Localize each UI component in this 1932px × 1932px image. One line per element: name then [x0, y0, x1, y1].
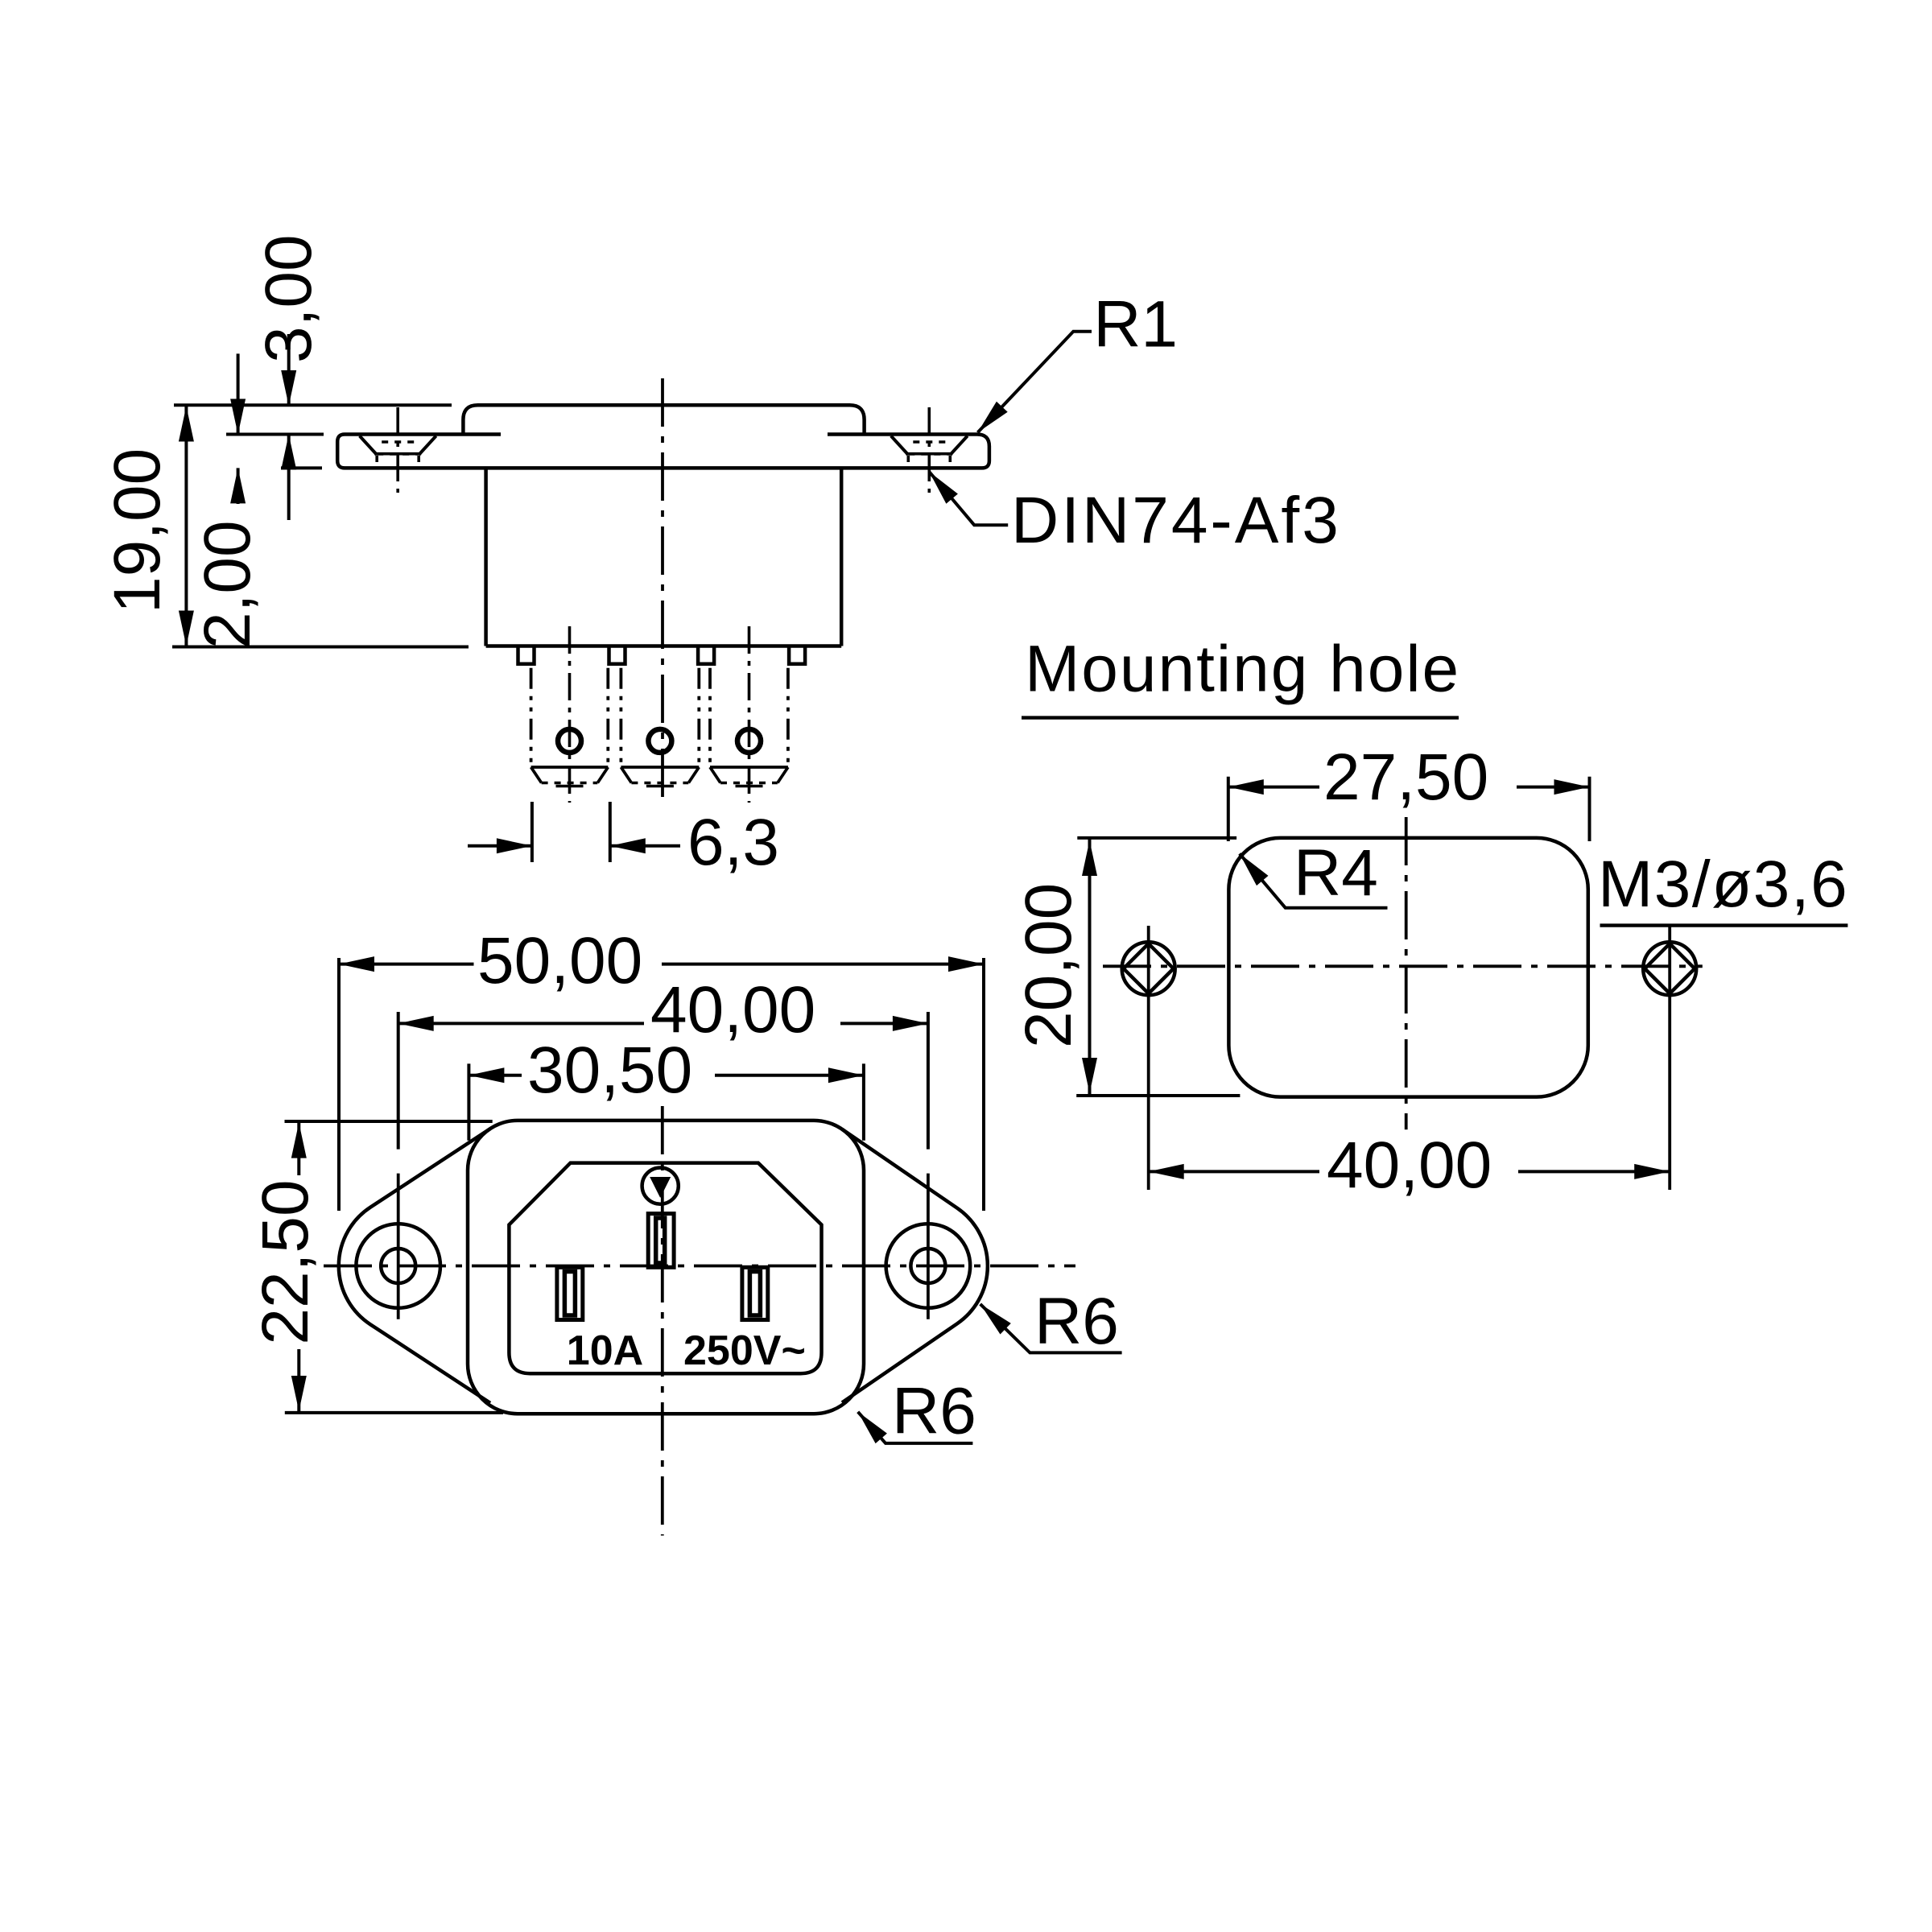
title underline [1022, 716, 1459, 719]
front view: line pin slot [557, 1267, 583, 1319]
mounting hole: left screw hole extension line [1147, 926, 1150, 1190]
mounting hole: horizontal centerline [1103, 964, 1703, 968]
svg-text:27,50: 27,50 [1323, 741, 1488, 814]
side view: tab 2 hole [648, 729, 671, 753]
dimension 27,50 extension lines [1227, 777, 1230, 841]
svg-text:50,00: 50,00 [477, 924, 642, 997]
mounting hole: left screw hole M3 [1122, 942, 1175, 995]
dimension 40,00 (mounting) [1149, 1170, 1319, 1173]
svg-text:6,3: 6,3 [687, 806, 779, 879]
side view: faston tab 3 (hidden outline) [708, 668, 712, 767]
side view: centerline [661, 378, 664, 807]
side view: main body below flange [484, 468, 488, 646]
svg-text:R6: R6 [892, 1375, 976, 1448]
leader DIN74-Af3 [929, 472, 1008, 525]
front view: right mounting ear [842, 1129, 988, 1403]
svg-text:250V~: 250V~ [683, 1327, 806, 1374]
side view: countersunk screw hole right (DIN74-Af3) [891, 436, 909, 456]
mounting hole: vertical centerline [1405, 817, 1408, 1129]
dimension 50,00 extension lines [337, 958, 341, 1211]
svg-text:19,00: 19,00 [101, 448, 174, 613]
side view: countersunk screw hole left (DIN74-Af3) [360, 436, 378, 456]
dimension 3,00 extension line [281, 466, 322, 469]
front view: horizontal centerline [314, 1265, 1075, 1268]
dimension 19,00 [184, 405, 188, 646]
dimension 6,3 extension lines [530, 802, 534, 862]
side view: flange plate [337, 435, 989, 469]
leader R4 [1240, 853, 1388, 907]
svg-text:Mounting hole: Mounting hole [1025, 632, 1460, 705]
svg-text:R4: R4 [1294, 836, 1378, 910]
svg-text:40,00: 40,00 [1327, 1129, 1492, 1202]
front view: left screw hole [356, 1224, 440, 1308]
front view: right screw hole [886, 1224, 971, 1308]
dimension 22,50 [297, 1123, 300, 1175]
front view: earth pin circle [642, 1168, 679, 1204]
svg-text:22,50: 22,50 [249, 1179, 322, 1344]
svg-text:DIN74-Af3: DIN74-Af3 [1011, 484, 1341, 557]
dimension 19,00 extension lines [174, 403, 452, 407]
side view: tab 1 hole [558, 729, 581, 753]
side view: faston tab 2 (hidden outline) [620, 668, 623, 767]
dimension 2,00 [237, 353, 240, 434]
label M3 underline [1600, 923, 1848, 927]
dimension 20,00 [1088, 838, 1092, 1096]
dimension 3,00 [287, 334, 291, 406]
dimension 50,00 [339, 963, 474, 966]
mounting hole: rounded rectangle cutout R4 [1228, 838, 1587, 1097]
dimension 27,50 [1228, 786, 1319, 789]
side view: raised insulator boss [463, 405, 864, 434]
svg-text:R6: R6 [1034, 1285, 1119, 1358]
leader R6 lower [858, 1412, 973, 1443]
svg-text:2,00: 2,00 [191, 520, 264, 649]
dimension 40,00 [398, 1022, 644, 1025]
side view: tab 3 centerline [748, 626, 751, 803]
dimension 22,50 extension lines [285, 1120, 493, 1123]
front view: left mounting ear [339, 1129, 490, 1403]
dimension 30,50 [469, 1074, 522, 1077]
svg-text:R1: R1 [1093, 287, 1178, 361]
side view: pin roots at body bottom [518, 646, 535, 664]
front view: vertical centerline [661, 1106, 664, 1536]
mounting hole: right screw hole M3 [1643, 942, 1696, 995]
leader R6 upper [980, 1304, 1122, 1353]
side view: tab 1 centerline [568, 626, 572, 803]
side view: faston tab 1 (hidden outline) [530, 668, 533, 767]
svg-text:20,00: 20,00 [1012, 883, 1085, 1048]
front view: recess outline [509, 1163, 821, 1374]
front view: earth pin arrow [650, 1177, 671, 1198]
front view: body rounded rectangle R6 [468, 1121, 864, 1414]
side view: tab 3 hole [737, 729, 761, 753]
dimension 20,00 extension lines [1077, 836, 1236, 840]
front view: neutral pin slot [742, 1267, 768, 1319]
svg-text:10A: 10A [567, 1327, 643, 1374]
dimension 30,50 extension lines [467, 1063, 470, 1140]
dimension 6,3 [468, 844, 532, 848]
leader R1 [978, 332, 1092, 432]
svg-text:3,00: 3,00 [252, 234, 325, 363]
front view: earth pin slot [648, 1214, 674, 1268]
svg-text:M3/ø3,6: M3/ø3,6 [1598, 848, 1848, 921]
svg-text:30,50: 30,50 [527, 1034, 692, 1107]
mounting hole: right screw hole extension line [1668, 926, 1671, 1190]
dimension 2,00 extension line [226, 433, 324, 436]
dimension 40,00 extension lines [397, 1012, 400, 1150]
